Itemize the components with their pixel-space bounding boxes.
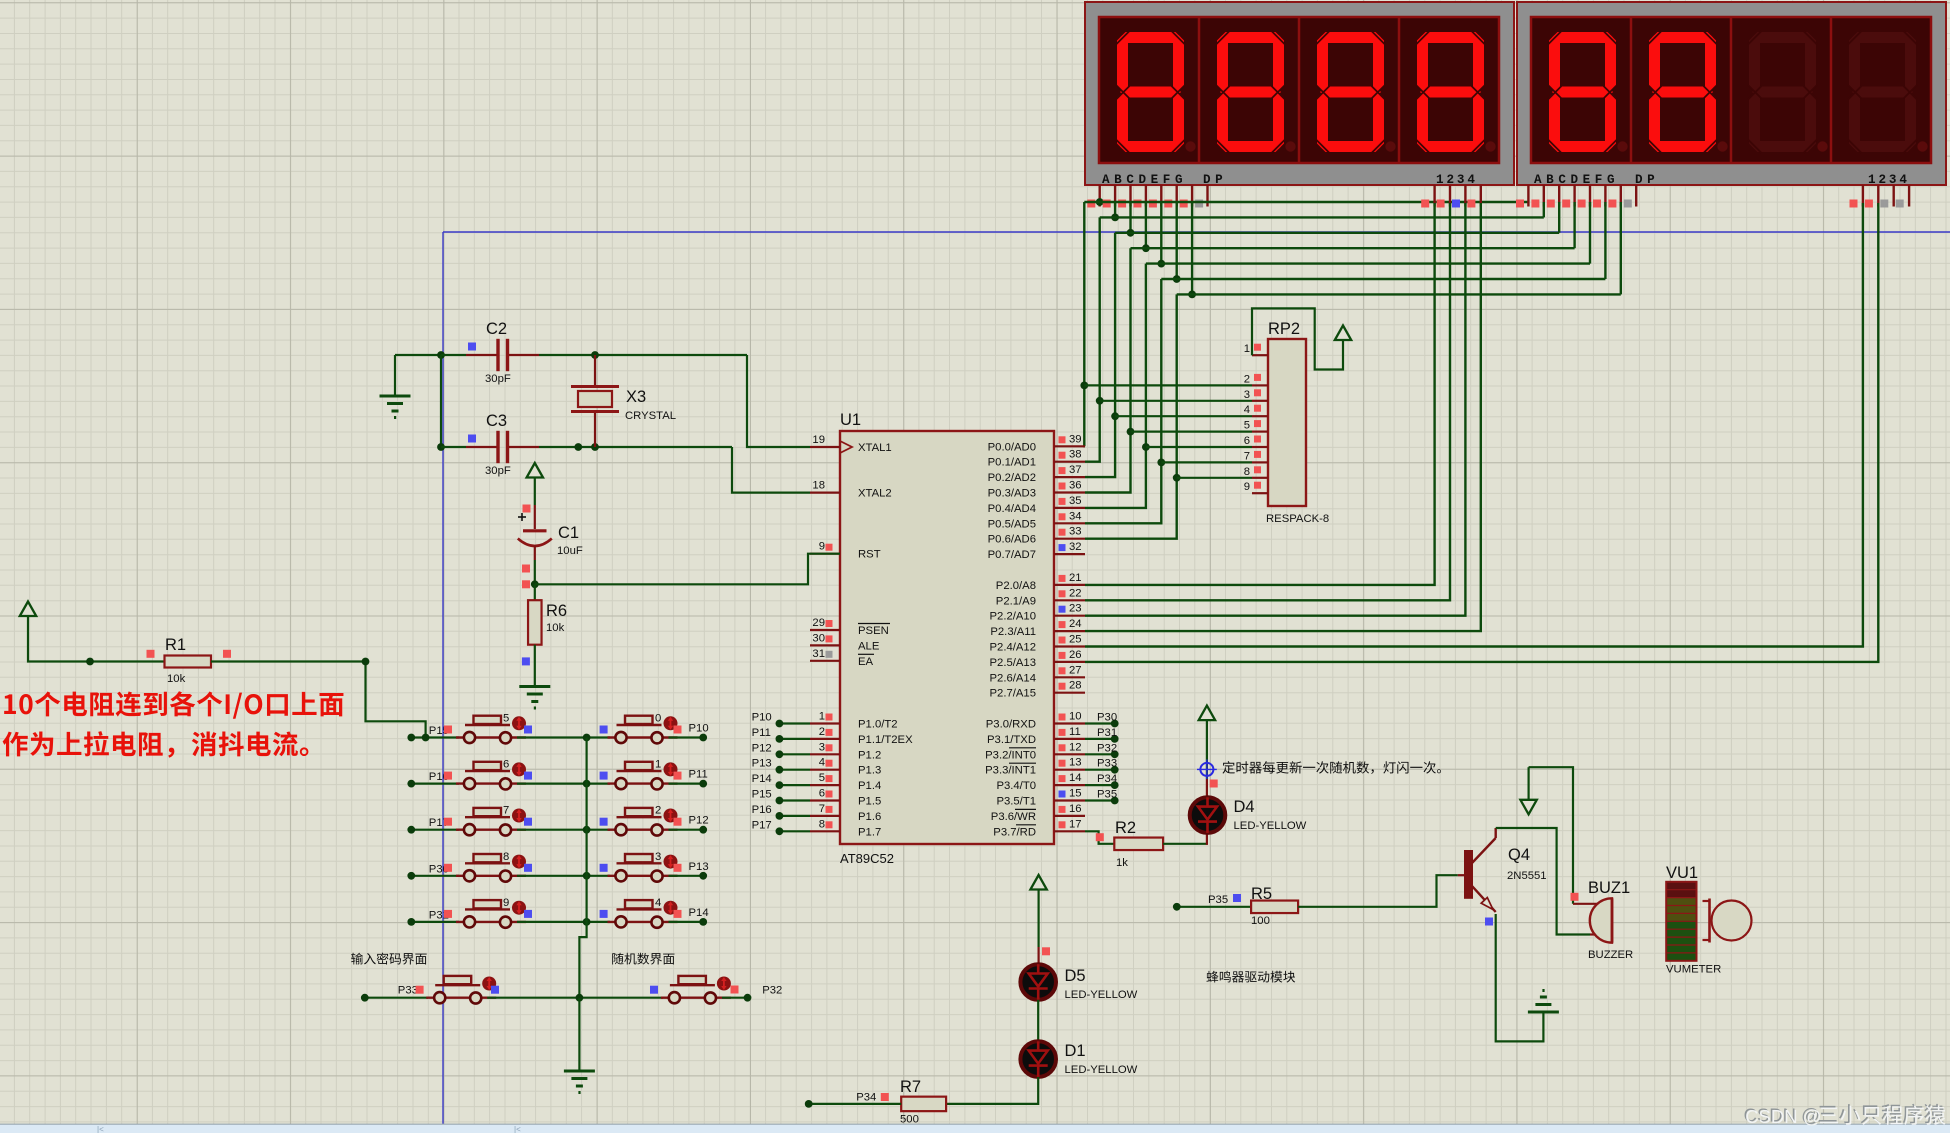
wire R5 to Q4 base xyxy=(1298,875,1458,907)
power terminal VCC at RP2 xyxy=(1335,326,1351,341)
svg-text:9: 9 xyxy=(1244,481,1250,493)
annotation red text line 1 xyxy=(4,691,343,719)
capacitor C1 plus sign xyxy=(518,516,526,518)
wire net P30 from mcu xyxy=(1085,722,1115,724)
svg-text:14: 14 xyxy=(1069,772,1082,784)
power terminal VCC at R1 xyxy=(20,602,36,617)
display DS2 digit pin 3 stub xyxy=(1892,185,1894,207)
svg-text:P14: P14 xyxy=(689,907,709,919)
transistor Q4 state square xyxy=(1485,918,1493,926)
wire P2.3 to DS1 digit 4 xyxy=(1085,203,1481,631)
display DS1 pin B stub xyxy=(1114,185,1116,207)
svg-text:6: 6 xyxy=(819,788,825,800)
wire GND to C2/C3 left plates xyxy=(395,354,441,356)
mcu U1 pin 29 PSEN xyxy=(810,629,840,631)
wire net P14 to mcu xyxy=(779,784,810,786)
mcu U1 pin 6 P1.5 xyxy=(810,799,840,801)
wire net P15 to mcu xyxy=(779,799,810,801)
wire matrix row 4 left xyxy=(411,875,459,877)
svg-text:P11: P11 xyxy=(689,769,708,781)
svg-text:RP2: RP2 xyxy=(1268,320,1300,338)
ground symbol below R6 xyxy=(519,685,550,688)
net label P15 state square xyxy=(444,726,452,734)
svg-text:22: 22 xyxy=(1069,587,1082,599)
svg-text:1: 1 xyxy=(655,759,661,771)
mcu U1 pin 39 P0.0/AD0 xyxy=(1054,445,1085,447)
display DS1 pin B state square xyxy=(1103,200,1111,208)
net label P17 state square xyxy=(444,818,452,826)
wire matrix row 4 right xyxy=(669,875,704,877)
wire matrix row 2 left xyxy=(411,782,459,784)
display DS2 pin C stub xyxy=(1558,185,1560,207)
wire P2.5 to DS2 digit 2 xyxy=(1085,203,1878,662)
svg-text:P0.4/AD4: P0.4/AD4 xyxy=(988,503,1036,515)
svg-text:P34: P34 xyxy=(1097,773,1117,785)
svg-text:28: 28 xyxy=(1069,680,1082,692)
mcu U1 pin 18 XTAL2 xyxy=(810,492,840,494)
svg-text:U1: U1 xyxy=(840,411,861,429)
svg-text:ALE: ALE xyxy=(858,640,880,652)
wire VCC to C1 xyxy=(534,477,536,506)
push button P32 xyxy=(661,997,731,999)
svg-text:P1.3: P1.3 xyxy=(858,765,881,777)
svg-text:P3.4/T0: P3.4/T0 xyxy=(996,780,1036,792)
capacitor C2 xyxy=(466,354,497,356)
svg-text:PSEN: PSEN xyxy=(858,625,889,637)
wire matrix row 1 left xyxy=(411,736,459,738)
wire P3.7 to R2 xyxy=(1085,831,1114,844)
push button 2 (right col row 3) xyxy=(608,829,678,831)
wire P0.0 riser to segment bus A xyxy=(1083,202,1086,446)
svg-text:1: 1 xyxy=(819,711,825,723)
display DS2 digit pin 1 state square xyxy=(1850,200,1858,208)
svg-text:5: 5 xyxy=(503,713,509,725)
mcu U1 pin 2 P1.1/T2EX xyxy=(810,738,840,740)
svg-text:37: 37 xyxy=(1069,464,1082,476)
mcu U1 pin 7 P1.6 xyxy=(810,815,840,817)
mcu U1 clock marker pin 19 xyxy=(840,441,852,453)
wire P2.0 to DS1 digit 1 xyxy=(1085,203,1435,585)
svg-text:P0.7/AD7: P0.7/AD7 xyxy=(988,549,1036,561)
display DS2 pin A state square xyxy=(1516,200,1524,208)
mcu U1 pin 17 P3.7/RD xyxy=(1054,830,1085,832)
display DS2 pin E stub xyxy=(1589,185,1591,207)
svg-text:11: 11 xyxy=(1069,726,1081,738)
mcu U1 pin 24 P2.3/A11 xyxy=(1054,630,1085,632)
push button 9 (left col row 5) xyxy=(456,921,526,923)
display DS1 digit pin 4 state square xyxy=(1467,200,1475,208)
wire net P12 to mcu xyxy=(779,753,810,755)
resistor pack RP2 pin 6 xyxy=(1252,446,1268,448)
push button P32 state square xyxy=(650,986,658,994)
mcu U1 pin 14 P3.4/T0 xyxy=(1054,784,1085,786)
wire C2 to XTAL1 riser xyxy=(441,354,466,356)
push button 8 state square xyxy=(524,864,532,872)
power terminal VCC at D5 xyxy=(1030,875,1046,890)
wire Q4 collector to BUZ1 xyxy=(1496,828,1590,935)
push button 1 state square xyxy=(600,772,608,780)
display DS2 pin F state square xyxy=(1593,200,1601,208)
svg-text:24: 24 xyxy=(1069,618,1082,630)
7-segment display DS2 (4-digit, showing 88__) xyxy=(1517,2,1946,185)
wire matrix row 1 middle xyxy=(517,736,610,738)
buzzer BUZ1 xyxy=(1573,903,1598,905)
svg-text:Q4: Q4 xyxy=(1508,846,1530,864)
push button 0 state square xyxy=(600,726,608,734)
mcu U1 pin 28 P2.7/A15 xyxy=(1054,692,1085,694)
svg-text:P1.1/T2EX: P1.1/T2EX xyxy=(858,734,913,746)
wire net P34 from mcu xyxy=(1085,784,1115,786)
resistor R1 state squares xyxy=(147,650,155,658)
wire matrix row 5 left xyxy=(411,921,459,923)
mcu U1 pin 35 P0.4/AD4 xyxy=(1054,507,1085,509)
svg-text:1234: 1234 xyxy=(1436,173,1478,187)
resistor R1 xyxy=(165,656,212,668)
net label P31 state square xyxy=(444,910,452,918)
mcu U1 pin 21 P2.0/A8 xyxy=(1054,584,1085,586)
display DS1 digit pin 2 state square xyxy=(1437,200,1445,208)
svg-text:P0.1/AD1: P0.1/AD1 xyxy=(988,457,1036,469)
wire XTAL1 net xyxy=(747,355,810,447)
wire matrix row 4 middle xyxy=(517,875,610,877)
svg-text:P14: P14 xyxy=(752,773,772,785)
push button 6 state square xyxy=(524,772,532,780)
svg-text:P10: P10 xyxy=(752,712,772,724)
svg-text:30pF: 30pF xyxy=(485,465,511,477)
svg-text:19: 19 xyxy=(812,434,825,446)
wire matrix row 5 right xyxy=(669,921,704,923)
capacitor C3 xyxy=(466,446,497,448)
wire RP2 pin 4 to P0.2 riser xyxy=(1115,415,1252,417)
display DS2 pin B state square xyxy=(1531,200,1539,208)
push button 0 (right col row 1) xyxy=(608,736,678,738)
net label P34 state square xyxy=(881,1093,889,1101)
svg-text:9: 9 xyxy=(819,541,825,553)
wire matrix row 3 middle xyxy=(517,829,610,831)
svg-text:26: 26 xyxy=(1069,649,1082,661)
power terminal VCC at D4 xyxy=(1199,706,1215,721)
caption 输入密码界面 xyxy=(351,953,427,965)
wire key row bottom middle xyxy=(487,997,663,999)
svg-text:VUMETER: VUMETER xyxy=(1666,964,1721,976)
net label P11 state square xyxy=(674,772,682,780)
wire R6 to ground xyxy=(534,645,536,686)
display DS1 pin D stub xyxy=(1145,185,1147,207)
wire net P35 from mcu xyxy=(1085,799,1115,801)
svg-text:18: 18 xyxy=(812,480,825,492)
push button 4 (right col row 5) xyxy=(608,921,678,923)
buzzer BUZ1 state square xyxy=(1571,893,1579,901)
svg-text:9: 9 xyxy=(503,897,509,909)
svg-text:C1: C1 xyxy=(558,524,579,542)
push button 9 state square xyxy=(524,910,532,918)
resistor pack RP2 pin 3 xyxy=(1252,400,1268,402)
display DS1 pin G state square xyxy=(1180,200,1188,208)
svg-text:2N5551: 2N5551 xyxy=(1507,870,1547,882)
svg-text:8: 8 xyxy=(1244,466,1250,478)
push button P33 xyxy=(426,997,496,999)
segment bus D (net SEG_D) xyxy=(1131,247,1575,249)
resistor R5 xyxy=(1251,901,1298,914)
svg-text:XTAL1: XTAL1 xyxy=(858,442,892,454)
svg-text:7: 7 xyxy=(1244,450,1250,462)
svg-text:P0.6/AD6: P0.6/AD6 xyxy=(988,534,1036,546)
wire P0.2 riser to segment bus C xyxy=(1085,233,1115,477)
resistor pack RP2 pin 8 xyxy=(1252,477,1268,479)
wire Q4 emitter to ground xyxy=(1496,914,1544,1041)
wire net P10 to mcu xyxy=(779,722,810,724)
wire matrix row 2 middle xyxy=(517,782,610,784)
display DS2 digit pin 4 stub xyxy=(1908,185,1910,207)
wire P0.1 riser to segment bus B xyxy=(1085,217,1100,461)
display DS2 pin F stub xyxy=(1604,185,1606,207)
annotation red text line 2 xyxy=(3,731,309,758)
wire matrix row 3 left xyxy=(411,829,459,831)
wire RP2 pin 7 to P0.5 riser xyxy=(1161,461,1252,463)
push button 3 state square xyxy=(600,864,608,872)
svg-text:R2: R2 xyxy=(1115,819,1136,837)
svg-text:VU1: VU1 xyxy=(1666,864,1698,882)
power terminal VCC at BUZ1 (down arrow) xyxy=(1520,800,1536,815)
wire RST node to R6 xyxy=(534,584,536,600)
wire P0.6 riser to segment bus G xyxy=(1085,294,1177,538)
resistor R6 xyxy=(528,600,542,645)
svg-text:P12: P12 xyxy=(689,815,709,827)
annotation 定时器每更新一次随机数，灯闪一次。 xyxy=(1222,761,1441,774)
svg-text:17: 17 xyxy=(1069,818,1082,830)
wire net P32 from mcu xyxy=(1085,753,1115,755)
svg-text:R6: R6 xyxy=(546,602,567,620)
display DS1 pin G stub xyxy=(1191,185,1193,207)
wire RP2 pin 6 to P0.4 riser xyxy=(1146,446,1252,448)
mcu U1 pin 30 ALE xyxy=(810,644,840,646)
svg-text:P2.6/A14: P2.6/A14 xyxy=(990,672,1036,684)
push button 7 state square xyxy=(524,818,532,826)
svg-text:P31: P31 xyxy=(1097,727,1117,739)
svg-text:3: 3 xyxy=(655,851,661,863)
svg-text:P1.2: P1.2 xyxy=(858,749,881,761)
display DS2 pin D stub xyxy=(1573,185,1575,207)
svg-text:1: 1 xyxy=(1244,343,1250,355)
svg-text:34: 34 xyxy=(1069,510,1082,522)
status bar strip xyxy=(0,1125,1950,1133)
svg-text:|<: |< xyxy=(514,1125,521,1133)
segment bus B (net SEG_B) xyxy=(1100,216,1544,218)
svg-text:P3.1/TXD: P3.1/TXD xyxy=(987,734,1036,746)
svg-text:CRYSTAL: CRYSTAL xyxy=(625,410,676,422)
svg-text:3: 3 xyxy=(819,741,825,753)
segment bus C (net SEG_C) xyxy=(1115,232,1559,234)
mcu U1 pin 4 P1.3 xyxy=(810,769,840,771)
mcu U1 pin 10 P3.0/RXD xyxy=(1054,722,1085,724)
svg-text:P2.0/A8: P2.0/A8 xyxy=(996,580,1036,592)
wire matrix row 2 right xyxy=(669,782,704,784)
mcu U1 pin 23 P2.2/A10 xyxy=(1054,615,1085,617)
wire VCC to D5 xyxy=(1037,889,1039,948)
wire net P35 to R5 xyxy=(1177,906,1251,908)
svg-text:21: 21 xyxy=(1069,572,1082,584)
svg-text:BUZ1: BUZ1 xyxy=(1588,879,1630,897)
display DS2 digit pin 4 state square xyxy=(1896,200,1904,208)
svg-text:P3.7/RD: P3.7/RD xyxy=(993,826,1036,838)
svg-text:7: 7 xyxy=(503,805,509,817)
wire net P31 from mcu xyxy=(1085,738,1115,740)
power terminal VCC at C1 xyxy=(527,463,543,478)
display DS1 pin F state square xyxy=(1164,200,1172,208)
diode D4 anchor marker xyxy=(1200,763,1213,776)
capacitor C1 state square top xyxy=(523,505,531,513)
svg-text:LED-YELLOW: LED-YELLOW xyxy=(1234,820,1307,832)
svg-text:32: 32 xyxy=(1069,541,1082,553)
mcu U1 pin 38 P0.1/AD1 xyxy=(1054,461,1085,463)
svg-text:P0.3/AD3: P0.3/AD3 xyxy=(988,488,1036,500)
annotation 蜂鸣器驱动模块 xyxy=(1206,971,1295,983)
wire net P17 to mcu xyxy=(779,830,810,832)
mcu U1 pin 27 P2.6/A14 xyxy=(1054,676,1085,678)
wire C1 to RST xyxy=(534,560,536,584)
mcu U1 pin 9 RST xyxy=(810,553,840,555)
wire net P16 to mcu xyxy=(779,815,810,817)
segment bus A (net SEG_A) xyxy=(1084,201,1528,203)
display DS1 digit pin 1 stub xyxy=(1433,185,1435,207)
wire RP2 pin 2 to P0.0 riser xyxy=(1084,384,1252,386)
svg-text:P35: P35 xyxy=(1208,894,1228,906)
display DS2 pin B stub xyxy=(1543,185,1545,207)
resistor pack RP2 pin 9 xyxy=(1252,492,1268,494)
svg-text:P2.5/A13: P2.5/A13 xyxy=(990,657,1036,669)
diode D4 state square xyxy=(1210,780,1218,788)
svg-text:P16: P16 xyxy=(752,804,772,816)
svg-text:P11: P11 xyxy=(752,727,771,739)
net label P30 state square xyxy=(444,864,452,872)
svg-text:1k: 1k xyxy=(1116,857,1128,869)
svg-text:P1.4: P1.4 xyxy=(858,780,881,792)
svg-text:23: 23 xyxy=(1069,603,1082,615)
display DS2 digit pin 3 state square xyxy=(1880,200,1888,208)
svg-text:5: 5 xyxy=(819,772,825,784)
display DS2 pin C state square xyxy=(1547,200,1555,208)
svg-text:P2.4/A12: P2.4/A12 xyxy=(990,642,1036,654)
ground symbol near C2 xyxy=(394,355,396,395)
transistor Q4 (2N5551 NPN) xyxy=(1458,874,1466,876)
svg-text:DP: DP xyxy=(1635,173,1659,187)
wire P2.4 to DS2 digit 1 xyxy=(1085,203,1863,647)
capacitor C1 (electrolytic) xyxy=(534,505,536,529)
display DS2 pin G state square xyxy=(1608,200,1616,208)
display DS2 digit pin 2 stub xyxy=(1877,185,1879,207)
svg-text:P2.7/A15: P2.7/A15 xyxy=(990,688,1036,700)
wire P2.2 to DS1 digit 3 xyxy=(1085,203,1465,616)
wire net P34 to R7 xyxy=(809,1103,902,1105)
svg-text:RST: RST xyxy=(858,549,881,561)
mcu U1 pin 22 P2.1/A9 xyxy=(1054,599,1085,601)
svg-text:33: 33 xyxy=(1069,526,1082,538)
svg-text:0: 0 xyxy=(655,713,661,725)
svg-text:ABCDEFG: ABCDEFG xyxy=(1534,173,1619,187)
svg-text:LED-YELLOW: LED-YELLOW xyxy=(1065,989,1138,1001)
wire R1 to key matrix row 1 xyxy=(211,662,426,738)
svg-text:P13: P13 xyxy=(752,758,772,770)
display DS1 pin A state square xyxy=(1087,200,1095,208)
svg-text:RESPACK-8: RESPACK-8 xyxy=(1266,513,1329,525)
net label P14 state square xyxy=(674,910,682,918)
net label P35 state square xyxy=(1233,894,1241,902)
svg-text:P17: P17 xyxy=(752,819,772,831)
mcu U1 pin 1 P1.0/T2 xyxy=(810,722,840,724)
7-segment display DS1 (4-digit, showing 8888) xyxy=(1085,2,1514,185)
net label P32 state square xyxy=(731,986,739,994)
wire matrix bus to ground xyxy=(578,998,580,1070)
svg-text:2: 2 xyxy=(655,805,661,817)
resistor pack RP2 pin 5 xyxy=(1252,431,1268,433)
ground symbol at Q4 emitter (inverted) xyxy=(1528,1011,1559,1014)
led D5 (LED-YELLOW) xyxy=(1037,947,1039,964)
svg-text:4: 4 xyxy=(1244,404,1250,416)
wire matrix row 1 right xyxy=(669,736,704,738)
wire D1 to R7 xyxy=(946,1077,1038,1104)
display DS2 digit pin 1 stub xyxy=(1862,185,1864,207)
wire P0.4 riser to segment bus E xyxy=(1085,264,1146,508)
svg-text:BUZZER: BUZZER xyxy=(1588,949,1633,961)
display DS1 pin DP stub xyxy=(1206,185,1208,207)
display DS1 digit pin 3 state square xyxy=(1452,200,1460,208)
svg-text:AT89C52: AT89C52 xyxy=(840,851,894,866)
push button 1 (right col row 2) xyxy=(608,782,678,784)
wire R2 to D4 xyxy=(1163,843,1207,845)
wire matrix row 5 middle xyxy=(517,921,610,923)
svg-text:|<: |< xyxy=(97,1125,104,1133)
segment bus G (net SEG_G) xyxy=(1177,293,1621,295)
resistor pack RP2 pin 1 xyxy=(1252,354,1268,356)
resistor pack RP2 body xyxy=(1268,339,1306,506)
capacitor C2 state square xyxy=(468,343,476,351)
svg-text:2: 2 xyxy=(819,726,825,738)
wire key P33 row xyxy=(365,997,428,999)
resistor R7 xyxy=(901,1097,946,1112)
svg-text:15: 15 xyxy=(1069,788,1082,800)
svg-text:C2: C2 xyxy=(486,320,507,338)
svg-text:P3.6/WR: P3.6/WR xyxy=(991,811,1036,823)
mcu U1 body xyxy=(840,431,1054,844)
svg-text:P3.3/INT1: P3.3/INT1 xyxy=(985,765,1036,777)
svg-text:30pF: 30pF xyxy=(485,373,511,385)
mcu U1 pin 11 P3.1/TXD xyxy=(1054,738,1085,740)
display DS1 digit pin 3 stub xyxy=(1464,185,1466,207)
svg-text:XTAL2: XTAL2 xyxy=(858,488,892,500)
crystal X3 xyxy=(594,355,596,385)
svg-text:31: 31 xyxy=(812,648,825,660)
wire RP2 pin 5 to P0.3 riser xyxy=(1131,431,1253,433)
svg-text:P2.2/A10: P2.2/A10 xyxy=(990,611,1036,623)
net label P16 state square xyxy=(444,772,452,780)
mcu U1 pin 36 P0.3/AD3 xyxy=(1054,491,1085,493)
svg-text:10: 10 xyxy=(1069,711,1082,723)
wire net P33 from mcu xyxy=(1085,769,1115,771)
segment bus E (net SEG_E) xyxy=(1146,262,1590,264)
ground symbol below key matrix xyxy=(564,1070,595,1073)
net label P10 state square xyxy=(674,726,682,734)
svg-text:36: 36 xyxy=(1069,480,1082,492)
svg-text:16: 16 xyxy=(1069,803,1082,815)
mcu U1 pin 26 P2.5/A13 xyxy=(1054,661,1085,663)
svg-text:ABCDEFG: ABCDEFG xyxy=(1102,173,1187,187)
push button 7 (left col row 3) xyxy=(456,829,526,831)
mcu U1 pin 25 P2.4/A12 xyxy=(1054,645,1085,647)
capacitor C3 state square xyxy=(468,435,476,443)
net label P12 state square xyxy=(674,818,682,826)
mcu U1 pin 33 P0.6/AD6 xyxy=(1054,538,1085,540)
wire P0.5 riser to segment bus F xyxy=(1085,279,1161,523)
